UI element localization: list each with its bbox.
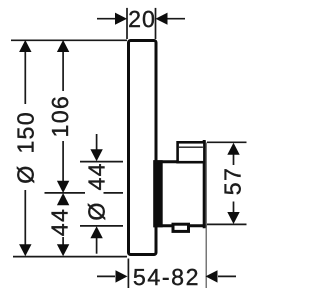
- dia44 top arrow: [90, 149, 102, 161]
- svg-text:20: 20: [128, 6, 156, 32]
- 57 extension lines: [207, 141, 247, 143]
- svg-text:Ø 44: Ø 44: [84, 162, 110, 220]
- dia44 dim shafts: [96, 134, 98, 150]
- handle right edge: [203, 142, 206, 227]
- dia44 bottom arrow: [90, 226, 102, 238]
- axis line: [45, 192, 86, 194]
- handle bottom edge: [155, 224, 205, 227]
- bottom tab: [173, 224, 189, 231]
- top-left extension line: [11, 39, 127, 41]
- svg-text:44: 44: [46, 208, 72, 236]
- thin outer face line: [205, 143, 207, 289]
- dimension text: [12, 6, 245, 290]
- handle body (sleeve): [155, 142, 205, 227]
- arrowheads: [19, 13, 240, 283]
- 44 lower dim line: [62, 237, 64, 246]
- 54-82 right arrow: [206, 270, 218, 282]
- 57 dim line: [233, 154, 235, 165]
- 20: extension lines: [126, 8, 128, 39]
- 20: arrow shafts: [97, 18, 115, 20]
- 20 left arrow: [115, 13, 127, 25]
- svg-text:Ø 150: Ø 150: [12, 111, 38, 184]
- 57 bottom arrow: [227, 212, 239, 224]
- 106 top arrow: [57, 40, 69, 52]
- dia150 top arrow: [19, 40, 31, 52]
- sleeve top edge: [155, 160, 204, 163]
- dimension graphics: [11, 8, 247, 288]
- 44 bottom arrow: [57, 244, 69, 256]
- 57 top arrow: [227, 143, 239, 155]
- black gasket band behind handle: [153, 160, 163, 227]
- cap inner line: [179, 146, 203, 148]
- faceplate (side view): [129, 41, 157, 255]
- 106 bottom arrow: [57, 181, 69, 193]
- 20 right arrow: [156, 13, 168, 25]
- handle cap (top): [178, 142, 205, 162]
- 54-82 left arrow: [116, 270, 128, 282]
- dia150 bottom arrow: [19, 244, 31, 256]
- svg-text:106: 106: [47, 95, 73, 138]
- 54-82 dim shafts: [97, 275, 115, 277]
- svg-text:57: 57: [219, 167, 245, 195]
- svg-text:54-82: 54-82: [133, 264, 200, 290]
- dia150 dim line: [24, 42, 26, 104]
- bottom-left extension line: [13, 256, 127, 258]
- 44 top arrow: [57, 193, 69, 205]
- 54-82 left extension line: [127, 259, 129, 289]
- dia44 extension lines: [80, 161, 123, 163]
- 106 dim line: [62, 42, 64, 91]
